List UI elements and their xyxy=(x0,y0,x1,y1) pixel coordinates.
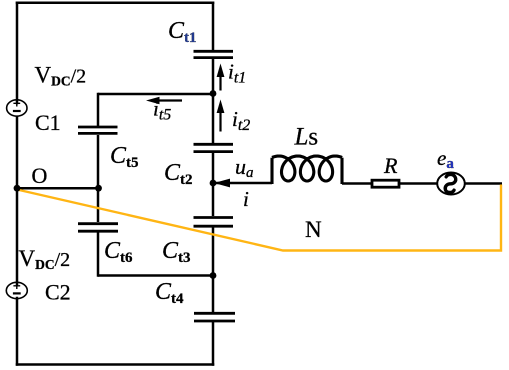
arrow it1 xyxy=(217,64,225,91)
arrow it2 xyxy=(217,100,225,132)
capacitor Ct4 xyxy=(194,313,235,321)
wire resistor to source ea xyxy=(399,182,438,185)
capacitor Ct6 xyxy=(78,224,118,232)
wire bottom rail xyxy=(17,363,213,366)
wire left rail lower xyxy=(16,298,19,365)
wire ua node to inductor xyxy=(213,182,272,185)
svg-text:N: N xyxy=(305,217,322,242)
inductor Ls coil xyxy=(270,158,273,184)
wire Ct5 branch lower xyxy=(97,135,100,188)
capacitor Ct2 xyxy=(194,144,234,151)
svg-text:R: R xyxy=(383,153,398,178)
arrow it5 xyxy=(146,97,182,104)
ac source ea xyxy=(437,173,465,195)
wire Ct6 branch lower xyxy=(97,232,100,276)
junction it5 on main rail xyxy=(210,90,217,97)
junction Ct6 wire on main rail xyxy=(210,272,217,279)
resistor R xyxy=(372,180,399,187)
capacitor Ct3 xyxy=(194,218,234,227)
capacitor Ct1 xyxy=(194,51,234,57)
capacitor Ct5 xyxy=(78,127,118,133)
svg-text:i: i xyxy=(243,187,249,211)
wire Ct6 branch upper xyxy=(97,188,100,222)
arrow current i into node ua xyxy=(214,179,230,188)
wire top rail xyxy=(17,2,213,5)
junction Ct5/Ct6 on O wire xyxy=(95,185,102,192)
wire Ct6 bottom horizontal xyxy=(98,274,213,277)
wire Ct5 branch upper xyxy=(97,94,100,126)
junction node O xyxy=(14,185,21,192)
dc source C2 xyxy=(6,282,27,298)
wire left rail upper xyxy=(16,3,19,103)
wire source ea to right corner xyxy=(464,182,502,185)
junction node ua xyxy=(210,180,217,187)
wire left rail middle xyxy=(16,116,19,286)
wire main rail between Ct3 and Ct4 xyxy=(212,228,215,313)
dc source C1 xyxy=(7,100,27,116)
svg-text:Ls: Ls xyxy=(294,124,319,151)
svg-text:C1: C1 xyxy=(35,110,61,135)
svg-text:O: O xyxy=(32,163,48,188)
wire main rail top segment xyxy=(212,3,215,50)
svg-text:C2: C2 xyxy=(45,280,71,305)
wire inductor to resistor xyxy=(342,182,372,185)
wire node O horizontal xyxy=(17,187,98,190)
wire main rail between Ct1 and Ct2 xyxy=(212,59,215,143)
wire main rail bottom segment xyxy=(212,323,215,365)
wire main rail between Ct2 and Ct3 xyxy=(212,153,215,216)
wire it5 horizontal xyxy=(98,93,213,96)
wire orange return path O to N to ea xyxy=(17,185,501,251)
